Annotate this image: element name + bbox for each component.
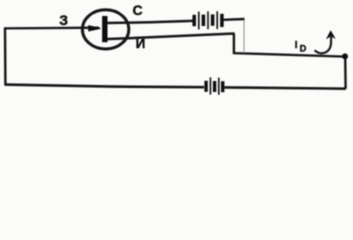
wire: source net horizontal to node A [233,53,346,57]
battery GB2 (bottom, gate bias) [206,77,223,94]
svg-text:З: З [59,12,68,28]
node A: junction dot at drain-current node [342,53,348,59]
wire: bottom, left half to battery GB2 [4,85,204,88]
current arrow for Id (curved) [315,37,332,53]
battery GB1 (top, drain supply) [194,11,222,29]
wire: drain lead to battery GB1 [106,21,193,23]
svg-text:И: И [136,36,146,51]
wire: source lead from transistor to step [105,34,235,40]
svg-text:I: I [295,40,298,51]
transistor VT1: channel bar [102,16,107,42]
svg-text:С: С [133,2,143,18]
wire: source step-down vertical [233,33,235,53]
wire: gate lead from left corner to transistor [5,27,99,30]
wire: battery return vertical (faint) [243,19,245,53]
transistor VT1: JFET envelope circle [82,10,128,49]
svg-text:D: D [300,43,307,53]
wire: right vertical up to drain-current node [344,57,347,89]
wire: left vertical (gate return) [4,27,7,84]
wire: battery GB1 to corner [224,18,245,21]
transistor VT1: gate arrowhead [88,25,100,31]
wire: bottom, battery GB2 to right corner [225,87,346,88]
